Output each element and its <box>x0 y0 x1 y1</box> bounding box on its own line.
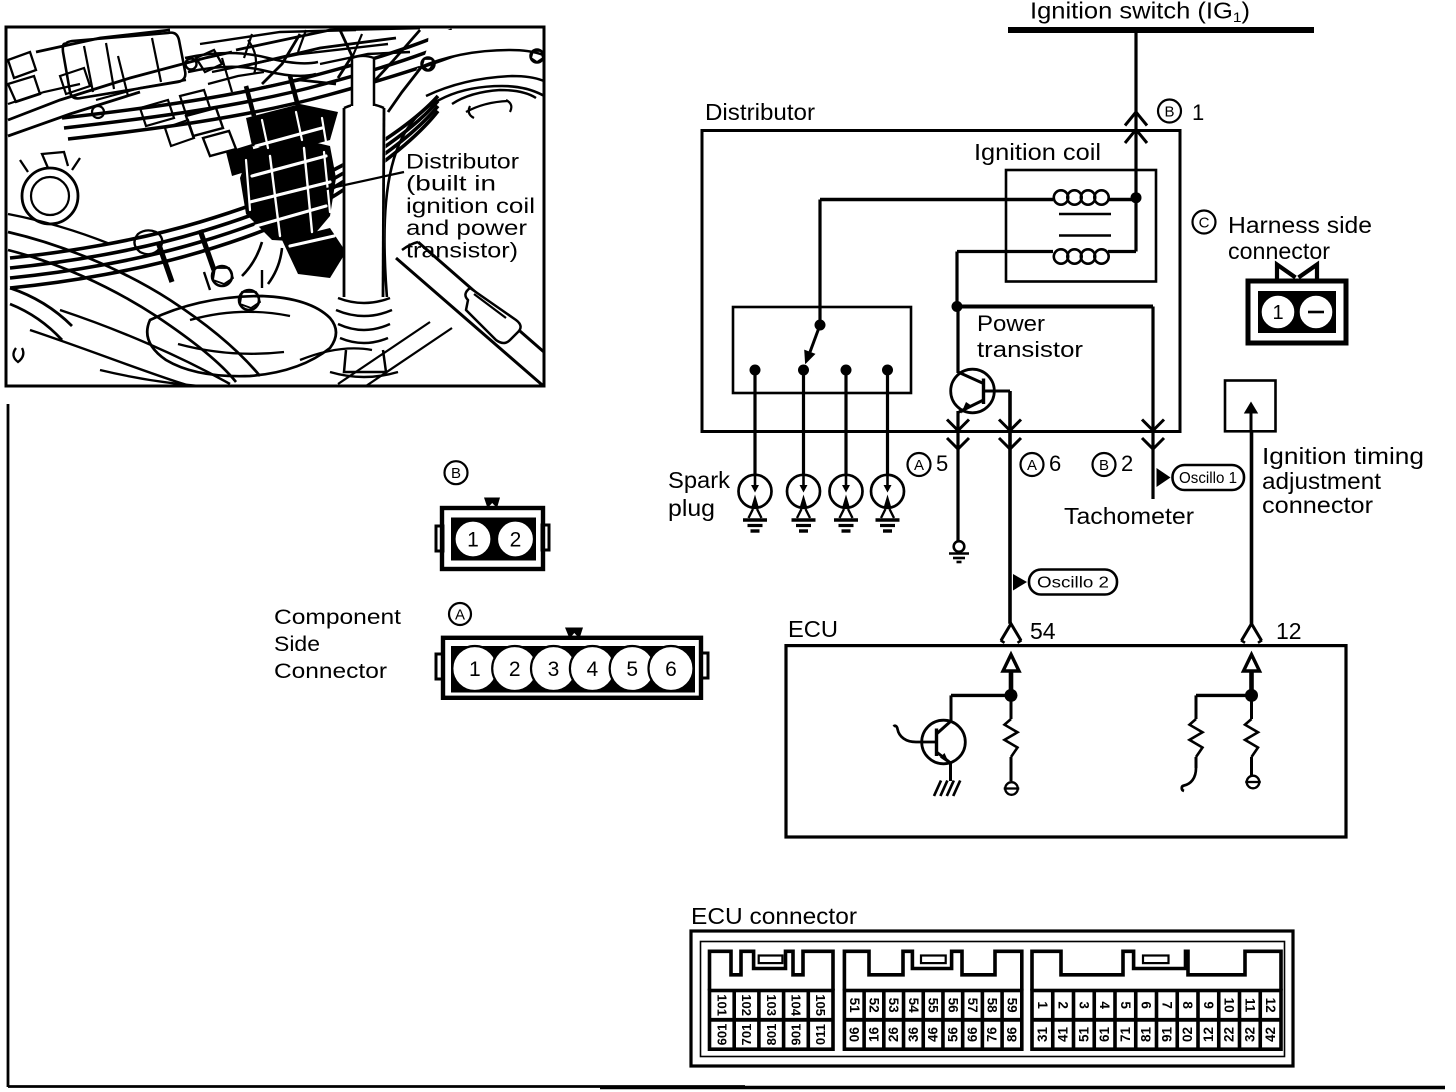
svg-text:76: 76 <box>985 1027 1000 1043</box>
svg-text:101: 101 <box>714 994 729 1016</box>
svg-text:51: 51 <box>1076 1027 1091 1043</box>
svg-text:11: 11 <box>1242 998 1257 1013</box>
svg-text:Connector: Connector <box>274 659 387 683</box>
svg-text:104: 104 <box>788 994 803 1016</box>
svg-text:36: 36 <box>906 1027 921 1043</box>
svg-text:Component: Component <box>274 605 401 629</box>
svg-text:61: 61 <box>1097 1027 1112 1043</box>
svg-text:86: 86 <box>1004 1027 1019 1043</box>
svg-text:1: 1 <box>1192 100 1204 125</box>
svg-text:Ignition timing: Ignition timing <box>1262 443 1424 469</box>
svg-text:12: 12 <box>1263 998 1278 1013</box>
svg-text:Oscillo 2: Oscillo 2 <box>1037 575 1109 592</box>
svg-text:Distributor: Distributor <box>406 151 519 174</box>
svg-text:B: B <box>1099 457 1109 474</box>
svg-text:59: 59 <box>1004 998 1019 1013</box>
svg-text:12: 12 <box>1201 1027 1216 1042</box>
svg-text:801: 801 <box>764 1024 779 1046</box>
svg-text:1: 1 <box>467 529 479 552</box>
svg-text:32: 32 <box>1242 1027 1257 1042</box>
svg-text:102: 102 <box>739 994 754 1016</box>
svg-text:91: 91 <box>1159 1027 1174 1043</box>
svg-text:16: 16 <box>866 1027 881 1043</box>
svg-text:66: 66 <box>965 1027 980 1043</box>
svg-text:2: 2 <box>509 658 521 681</box>
svg-text:1: 1 <box>1272 302 1283 324</box>
svg-text:B: B <box>1164 103 1174 120</box>
svg-text:and power: and power <box>406 217 527 240</box>
svg-text:46: 46 <box>926 1027 941 1043</box>
svg-text:6: 6 <box>1139 1001 1154 1009</box>
svg-text:2: 2 <box>1056 1001 1071 1009</box>
svg-text:701: 701 <box>739 1024 754 1046</box>
svg-text:26: 26 <box>886 1027 901 1043</box>
svg-text:02: 02 <box>1180 1027 1195 1042</box>
svg-text:9: 9 <box>1201 1001 1216 1009</box>
svg-text:71: 71 <box>1118 1027 1133 1043</box>
svg-text:52: 52 <box>866 998 881 1013</box>
svg-text:601: 601 <box>714 1024 729 1046</box>
svg-text:5: 5 <box>626 658 638 681</box>
svg-text:A: A <box>455 606 465 623</box>
svg-text:A: A <box>914 457 924 474</box>
svg-text:12: 12 <box>1276 618 1302 644</box>
svg-text:ECU connector: ECU connector <box>691 903 857 929</box>
svg-text:06: 06 <box>847 1027 862 1043</box>
svg-text:Power: Power <box>977 311 1045 336</box>
svg-text:Harness side: Harness side <box>1228 212 1372 238</box>
svg-text:103: 103 <box>764 994 779 1016</box>
svg-text:3: 3 <box>548 658 560 681</box>
svg-text:53: 53 <box>886 998 901 1014</box>
svg-text:1: 1 <box>1035 1001 1050 1009</box>
svg-text:Side: Side <box>274 632 320 656</box>
svg-text:connector: connector <box>1228 238 1330 264</box>
svg-text:4: 4 <box>587 658 599 681</box>
svg-text:011: 011 <box>813 1024 828 1045</box>
svg-text:5: 5 <box>936 451 948 476</box>
svg-text:3: 3 <box>1076 1001 1091 1009</box>
svg-text:B: B <box>451 465 461 482</box>
svg-text:4: 4 <box>1097 1001 1112 1009</box>
svg-text:transistor): transistor) <box>406 239 518 262</box>
svg-text:56: 56 <box>945 1027 960 1043</box>
svg-text:connector: connector <box>1262 492 1373 518</box>
svg-text:901: 901 <box>788 1024 803 1046</box>
svg-text:6: 6 <box>665 658 677 681</box>
svg-text:55: 55 <box>926 998 941 1014</box>
svg-text:81: 81 <box>1139 1027 1154 1043</box>
svg-text:56: 56 <box>945 998 960 1014</box>
svg-text:42: 42 <box>1263 1027 1278 1042</box>
svg-text:Oscillo 1: Oscillo 1 <box>1179 470 1237 487</box>
svg-text:2: 2 <box>1121 451 1133 476</box>
svg-text:105: 105 <box>813 994 828 1016</box>
svg-text:8: 8 <box>1180 1001 1195 1009</box>
svg-text:51: 51 <box>847 998 862 1014</box>
svg-text:Ignition coil: Ignition coil <box>974 139 1101 165</box>
svg-text:Distributor: Distributor <box>705 99 815 125</box>
svg-text:58: 58 <box>985 998 1000 1014</box>
svg-text:Tachometer: Tachometer <box>1064 503 1194 529</box>
svg-text:6: 6 <box>1049 451 1061 476</box>
svg-text:Ignition switch (IG1): Ignition switch (IG1) <box>1030 0 1250 25</box>
svg-text:7: 7 <box>1159 1001 1174 1009</box>
svg-text:(built in: (built in <box>406 173 496 196</box>
svg-text:ignition coil: ignition coil <box>406 195 535 218</box>
svg-text:31: 31 <box>1035 1027 1050 1043</box>
svg-text:2: 2 <box>510 529 522 552</box>
svg-text:54: 54 <box>906 998 921 1014</box>
svg-text:41: 41 <box>1056 1027 1071 1043</box>
svg-text:adjustment: adjustment <box>1262 468 1382 494</box>
svg-text:plug: plug <box>668 495 715 521</box>
svg-text:ECU: ECU <box>788 616 838 642</box>
svg-text:22: 22 <box>1222 1027 1237 1042</box>
svg-text:1: 1 <box>469 658 481 681</box>
svg-text:54: 54 <box>1030 618 1056 644</box>
svg-text:transistor: transistor <box>977 337 1083 362</box>
svg-text:A: A <box>1027 457 1037 474</box>
svg-text:10: 10 <box>1222 998 1237 1013</box>
svg-text:57: 57 <box>965 998 980 1013</box>
svg-text:Spark: Spark <box>668 467 731 493</box>
svg-text:5: 5 <box>1118 1001 1133 1009</box>
svg-text:C: C <box>1199 214 1210 231</box>
